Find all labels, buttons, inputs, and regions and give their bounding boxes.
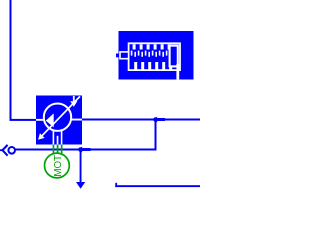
component box fill [36, 96, 82, 145]
wire: bottom-right line corner tick [115, 183, 117, 187]
wire: vertical drain with arrow at x=80.5 [80, 149, 82, 182]
junction node with left flow arrow (lower line) [77, 147, 91, 153]
spring coil [131, 44, 172, 69]
piston rod down through box edge [176, 64, 179, 79]
wire: horizontal into pump left port [10, 119, 37, 121]
shaft lines (green, between pump box and motor) [53, 145, 63, 154]
wire: stub at left edge into check valve [0, 149, 3, 151]
check valve [3, 145, 16, 156]
wire: pump right port to right edge [82, 119, 200, 121]
wire: left vertical supply line [10, 0, 12, 121]
flow triangle [46, 113, 54, 127]
wire: lower horizontal line [16, 149, 157, 151]
left stub (rod out of cylinder) [116, 54, 119, 58]
piston [170, 46, 178, 67]
variable displacement pump (selected, inverted) [36, 96, 82, 145]
component box fill [119, 31, 194, 80]
motor MOT (drive) [45, 153, 70, 178]
junction node with left flow arrow (upper line) [152, 117, 165, 123]
arrowhead: flow direction down at drain end [76, 182, 85, 189]
wire: vertical drop at x=155.5 [155, 119, 157, 151]
port lines [36, 119, 45, 121]
diagonal arrowhead (lower-left) [38, 133, 45, 139]
control line with down arrow (top) [73, 96, 75, 102]
pump circle [44, 104, 71, 131]
svg-text:MOT: MOT [53, 155, 64, 177]
shaft lines (white, inside box) [53, 131, 55, 145]
cylinder outline [129, 43, 180, 70]
spring-loaded cylinder/accumulator (selected, inverted) [116, 31, 194, 80]
wire: bottom-right horizontal line [115, 185, 200, 187]
variable displacement diagonal [41, 96, 80, 137]
